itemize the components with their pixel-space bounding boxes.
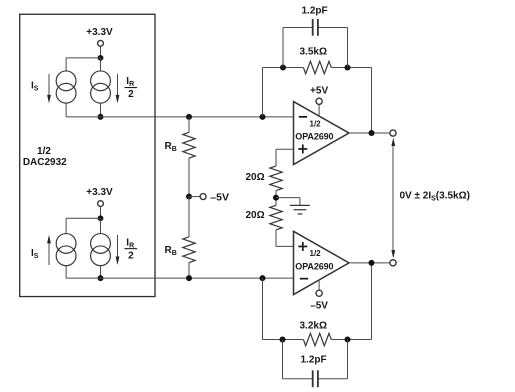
U1a non-inverting plus sign [298,144,307,153]
wire: bottom supply circle to junction [100,206,102,218]
wire: top supply circle to junction [100,46,102,58]
op-amp U1a triangle 1/2 OPA2690 [294,102,350,165]
current source IS (top) : two overlapping circles [56,71,76,91]
wire: bottom feedback right up to output [371,263,373,340]
wire: 20ohm1 to center node [275,191,277,206]
wire: down to left source top (bottom) [65,218,67,234]
IR/2 arrow down (top) [117,74,119,97]
wire: bottom cap row left [283,378,313,380]
svg-text:+3.3V: +3.3V [86,27,113,38]
wire: up to cap row left [282,28,284,68]
ground symbol [290,205,310,214]
resistor 3.2k [303,333,331,345]
wire: cap row left [283,27,312,29]
resistor RB (upper) [183,132,195,158]
+3.3V terminal circle (bottom) [98,201,104,207]
junction dot: top bus at RB [186,114,192,120]
junction dot output top [369,130,375,136]
wire: bottom bus to op-amp inverting input [66,277,293,279]
wire: bus to RB1 [188,117,190,133]
wire: bottom feedback row right segment [331,339,371,341]
+3.3V terminal circle (top) [98,40,104,46]
svg-text:RB: RB [165,141,177,153]
junction dot bottom feedback right [345,337,351,343]
svg-text:–5V: –5V [210,191,229,203]
wire: up to cap row right [347,28,349,68]
wire: +5V circle to opamp top edge [318,104,320,116]
resistor 3.5k [303,61,331,73]
label 1/2 DAC2932 [23,146,67,168]
wire: right source bottom to bus [100,103,102,117]
junction dot: top bus at feedback [260,114,266,120]
svg-text:20Ω: 20Ω [246,172,265,183]
wire: RB1 to -5V node [188,158,190,197]
wire: opamp1 output [349,132,390,134]
wire: RB2 to bottom bus [188,263,190,279]
IR/2 arrow down (bottom) [117,235,119,259]
wire: left source bottom to bus [65,103,67,117]
wire: feedback row left segment [263,67,304,69]
current source IS (bottom) [56,234,76,254]
svg-text:20Ω: 20Ω [246,210,265,221]
wire: opamp1 + input horizontal [276,148,294,150]
svg-text:IS: IS [31,248,39,260]
resistor 20ohm (upper) [270,166,282,191]
svg-text:+5V: +5V [310,86,328,97]
wire: right source bottom to bus (bottom) [100,266,102,279]
svg-text:2: 2 [128,251,134,262]
junction dot: bottom sources output [98,275,104,281]
svg-text:1/2: 1/2 [310,120,322,129]
svg-text:1.2pF: 1.2pF [301,354,327,365]
wire: supply junction horizontal (bottom) [66,217,100,219]
wire: bottom feedback row left segment [263,339,304,341]
wire: feedback row right segment [331,67,371,69]
differential output arrow (double headed) [392,143,394,254]
wire: feedback right down to output [371,68,373,134]
svg-text:0V ± 2IS(3.5kΩ): 0V ± 2IS(3.5kΩ) [400,191,470,203]
wire: down to bottom cap row right [347,340,349,379]
junction dot: top sources output [98,114,104,120]
wire: down to bottom cap row left [282,340,284,379]
wire: supply junction horizontal to left source [66,57,100,59]
wire: cap row right [319,27,348,29]
wire: to -5V terminal [189,196,200,198]
svg-text:1.2pF: 1.2pF [302,6,328,17]
svg-text:–5V: –5V [310,301,328,312]
wire: down to right current source top [100,58,102,71]
output terminal circle top [390,130,396,136]
resistor 20ohm (lower) [270,205,282,230]
wire: down to 20ohm 1 [275,149,277,166]
U1b non-inverting plus sign [298,242,307,251]
resistor RB (lower) [183,237,195,263]
-5V terminal circle (middle) [200,194,206,200]
junction dot -5V node [186,194,192,200]
wire: bottom cap row right [319,378,348,380]
junction dot feedback right [345,65,351,71]
junction dot output bottom [369,260,375,266]
junction dot bottom supply [98,215,104,221]
wire: center node to ground [276,197,300,199]
junction dot top supply [98,55,104,61]
wire: down to left current source top [65,58,67,71]
svg-text:1/2: 1/2 [310,249,322,258]
U1a inverting input minus sign [299,116,307,118]
IS arrow down (top) [48,74,50,97]
output terminal circle bottom [390,260,396,266]
svg-text:IR: IR [126,237,134,249]
wire: -5V node to RB2 [188,197,190,237]
svg-text:2: 2 [128,89,134,100]
op-amp U1b triangle 1/2 OPA2690 [294,231,350,294]
svg-text:3.5kΩ: 3.5kΩ [300,47,327,58]
capacitor 1.2pF (top) plates [313,19,318,36]
wire: down to right source top (bottom) [100,218,102,234]
svg-text:OPA2690: OPA2690 [295,262,333,272]
current source IR/2 (bottom) [91,234,111,254]
svg-text:IS: IS [31,81,39,93]
current source IR/2 (top) : two overlapping circles [91,71,111,91]
svg-text:DAC2932: DAC2932 [23,157,67,168]
junction dot feedback left [280,65,286,71]
DAC2932 IC boundary box [20,14,155,296]
svg-text:IR: IR [126,76,134,88]
junction dot bottom feedback left [280,337,286,343]
IS arrow up (bottom) [48,242,50,265]
junction dot center divider node [273,195,279,201]
-5V terminal circle (opamp) [316,290,322,296]
wire: 20ohm2 to opamp2 + input [275,230,277,247]
wire: top bus to op-amp inverting input [66,116,293,118]
capacitor 1.2pF (bottom) plates [313,370,318,387]
wire: top bus up to feedback resistor row [262,68,264,117]
+5V terminal circle [316,98,322,104]
wire: left source bottom to bus (bottom) [65,266,67,279]
wire: opamp bottom edge to -5V circle [318,280,320,291]
junction dot: bottom bus at feedback [260,275,266,281]
svg-text:RB: RB [165,245,177,257]
svg-text:OPA2690: OPA2690 [295,132,333,142]
wire: bottom bus down to feedback resistor row [262,278,264,339]
svg-text:+3.3V: +3.3V [86,187,113,198]
U1b inverting input minus sign [300,278,308,280]
svg-text:1/2: 1/2 [37,146,51,157]
svg-text:3.2kΩ: 3.2kΩ [300,321,327,332]
junction dot: bottom bus at RB [186,275,192,281]
wire: opamp2 output [349,262,390,264]
